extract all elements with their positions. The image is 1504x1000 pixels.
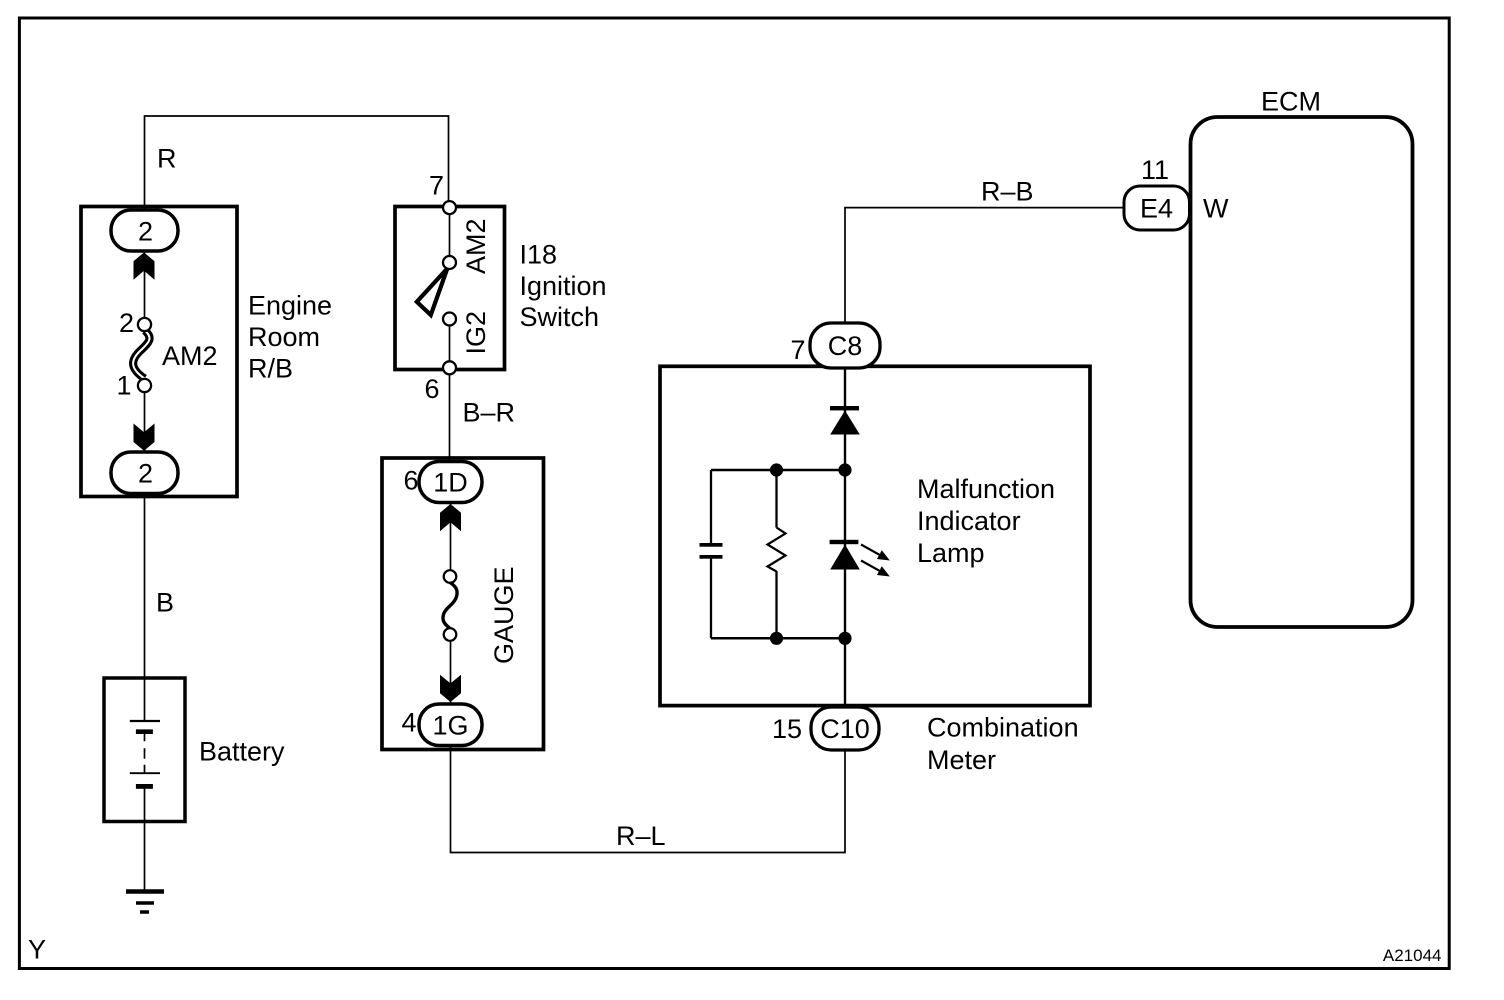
svg-text:2: 2	[138, 217, 153, 247]
svg-text:7: 7	[429, 171, 444, 201]
capacitor branch wire	[710, 470, 712, 638]
svg-text:4: 4	[402, 708, 417, 738]
LED malfunction indicator lamp (cathode up)	[830, 540, 860, 570]
junction block Engine Room R/B box	[81, 207, 237, 497]
connector arrow down (above 1G)	[440, 675, 461, 702]
wire R: battery column up and across to ignition switch pin 7	[145, 116, 449, 212]
svg-text:2: 2	[119, 308, 134, 338]
connector 1D	[419, 462, 482, 503]
connector arrow down (above connector 2 bottom)	[134, 424, 155, 451]
connector 2 (top of Engine Room R/B)	[111, 210, 178, 251]
pin 1 of fusible link	[138, 379, 151, 392]
fusible link AM2	[133, 331, 149, 379]
svg-text:IG2: IG2	[461, 311, 491, 355]
pin 2 of fusible link	[138, 318, 151, 331]
svg-text:Meter: Meter	[927, 745, 996, 775]
wire inside Engine Room R/B down to battery plate	[144, 250, 146, 720]
svg-text:6: 6	[425, 374, 440, 404]
connector 2 (bottom of Engine Room R/B)	[111, 452, 178, 494]
svg-text:B: B	[156, 588, 174, 618]
contact IG2	[443, 313, 456, 326]
svg-text:1: 1	[117, 371, 132, 401]
switch pivot contact	[443, 256, 456, 269]
svg-text:Ignition: Ignition	[520, 271, 607, 301]
svg-text:AM2: AM2	[162, 341, 218, 371]
switch I18 ignition switch box	[395, 207, 505, 370]
svg-text:11: 11	[1141, 155, 1169, 185]
ECM box	[1191, 117, 1413, 627]
svg-text:Combination: Combination	[927, 713, 1079, 743]
resistor R	[768, 528, 786, 572]
svg-text:6: 6	[404, 466, 419, 496]
svg-text:C10: C10	[820, 714, 870, 744]
wire R-B from C8 up and across to ECM E4	[845, 208, 1124, 325]
switch lever	[417, 269, 448, 316]
svg-text:R–B: R–B	[981, 177, 1034, 207]
wire battery to ground	[144, 788, 146, 890]
junction dot (top rail / resistor)	[770, 463, 783, 476]
svg-text:I18: I18	[520, 240, 558, 270]
ground	[126, 892, 164, 913]
svg-text:R–L: R–L	[616, 821, 666, 851]
wire R-L from gauge to combination meter C10	[451, 745, 846, 853]
svg-text:C8: C8	[828, 331, 863, 361]
svg-text:E4: E4	[1140, 194, 1173, 224]
svg-text:15: 15	[772, 714, 802, 744]
wire inside ignition switch	[449, 208, 451, 368]
resistor branch wire	[775, 470, 777, 638]
svg-text:Indicator: Indicator	[917, 506, 1021, 536]
svg-text:1D: 1D	[433, 468, 468, 498]
junction dot (bottom rail / resistor)	[770, 632, 783, 645]
svg-text:1G: 1G	[432, 711, 468, 741]
svg-text:ECM: ECM	[1261, 87, 1321, 117]
wire top rail of lamp network	[711, 469, 845, 472]
connector arrow up (below 1D)	[440, 504, 461, 531]
svg-text:B–R: B–R	[463, 398, 516, 428]
LED emission arrow 2	[859, 556, 893, 581]
svg-text:Lamp: Lamp	[917, 538, 985, 568]
svg-text:Switch: Switch	[520, 302, 600, 332]
svg-text:Y: Y	[28, 935, 46, 965]
connector arrow up (below connector 2 top)	[134, 253, 155, 280]
connector 1G	[419, 704, 482, 746]
connector C10	[811, 707, 879, 750]
svg-text:Malfunction: Malfunction	[917, 474, 1055, 504]
svg-text:R: R	[157, 144, 177, 174]
svg-text:GAUGE: GAUGE	[489, 566, 519, 664]
connector E4	[1124, 186, 1190, 230]
svg-text:Engine: Engine	[248, 291, 332, 321]
svg-text:R/B: R/B	[248, 353, 293, 383]
fuse GAUGE box	[382, 458, 544, 750]
pin 6 of ignition switch	[443, 361, 456, 374]
junction dot (top rail / main line)	[838, 463, 851, 476]
wire main vertical inside meter	[844, 366, 846, 707]
fuse GAUGE symbol	[443, 570, 457, 641]
diode D (top, cathode up)	[830, 406, 860, 435]
wire B-R from ignition switch to gauge fuse	[449, 374, 451, 463]
LED emission arrow 1	[859, 540, 893, 565]
wire inside gauge box	[450, 500, 452, 750]
svg-text:7: 7	[791, 335, 806, 365]
wire bottom rail of lamp network	[711, 637, 845, 640]
svg-text:Room: Room	[248, 322, 320, 352]
junction dot (bottom rail / main line)	[838, 632, 851, 645]
svg-text:AM2: AM2	[461, 218, 491, 274]
pin 7 of ignition switch	[443, 201, 456, 214]
combination meter box	[660, 366, 1090, 705]
battery	[104, 678, 185, 822]
svg-text:A21044: A21044	[1383, 946, 1442, 965]
svg-text:2: 2	[138, 459, 153, 489]
connector C8	[810, 323, 880, 368]
svg-text:Battery: Battery	[199, 737, 285, 767]
capacitor C	[700, 543, 723, 559]
svg-text:W: W	[1203, 194, 1229, 224]
